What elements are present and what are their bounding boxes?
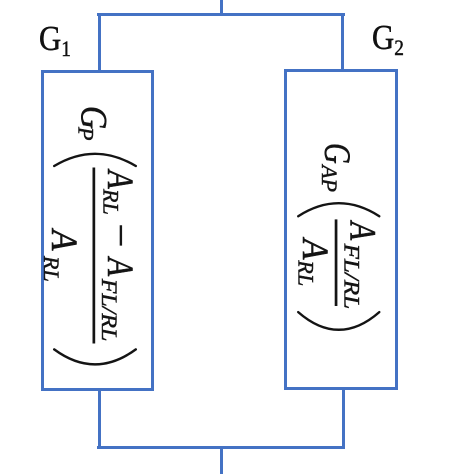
svg-text:G: G <box>73 106 114 129</box>
svg-text:G: G <box>316 143 357 164</box>
svg-text:RL: RL <box>99 188 124 215</box>
svg-text:A: A <box>99 169 139 190</box>
svg-text:A: A <box>295 237 337 260</box>
svg-text:RL: RL <box>294 259 319 286</box>
svg-text:RL: RL <box>39 255 64 282</box>
svg-text:A: A <box>99 256 139 277</box>
svg-text:−: − <box>100 221 142 250</box>
svg-text:A: A <box>342 220 382 241</box>
svg-text:P: P <box>74 126 99 140</box>
svg-text:FL/RL: FL/RL <box>339 243 363 310</box>
svg-text:AP: AP <box>317 163 342 192</box>
svg-text:A: A <box>44 228 86 251</box>
svg-text:FL/RL: FL/RL <box>97 278 122 342</box>
